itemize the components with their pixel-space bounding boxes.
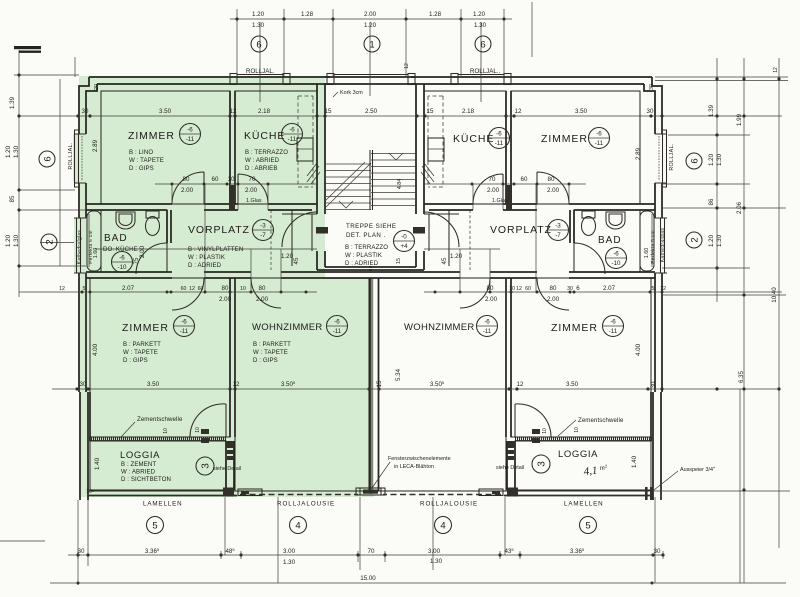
svg-text:1.28: 1.28: [301, 11, 314, 18]
green fill upper-left apartment block: [79, 76, 325, 278]
svg-text:6.35: 6.35: [738, 370, 745, 383]
svg-text:ROLLJAL.: ROLLJAL.: [246, 68, 275, 75]
svg-text:LOGGIA: LOGGIA: [120, 450, 160, 461]
svg-text:70: 70: [368, 548, 375, 555]
svg-text:KÜCHE: KÜCHE: [244, 130, 285, 142]
svg-text:80: 80: [487, 285, 494, 292]
svg-text:1: 1: [369, 40, 374, 51]
svg-text:Perfekta 5 cm: Perfekta 5 cm: [88, 230, 94, 264]
svg-text:-11: -11: [483, 328, 492, 335]
svg-text:2: 2: [690, 237, 701, 242]
svg-text:80: 80: [222, 285, 229, 292]
svg-text:2.06: 2.06: [736, 201, 743, 214]
left chain verticals: [19, 50, 60, 297]
right apartment (mirrored structure): [356, 22, 668, 500]
svg-text:3: 3: [537, 461, 548, 467]
door dim row upper: [155, 183, 586, 185]
svg-text:-11: -11: [595, 140, 604, 147]
svg-text:30: 30: [82, 108, 89, 115]
svg-text:10: 10: [574, 427, 580, 433]
svg-text:-6: -6: [181, 319, 187, 326]
svg-text:4.84: 4.84: [397, 179, 403, 190]
dim row y389: [52, 388, 779, 390]
svg-text:12: 12: [660, 286, 666, 292]
svg-text:1.28: 1.28: [429, 11, 442, 18]
dim texts row y386: [80, 380, 579, 388]
svg-text:WOHNZIMMER: WOHNZIMMER: [252, 322, 323, 333]
svg-text:1.20: 1.20: [252, 11, 265, 18]
green fill lower-left apartment block: [79, 278, 374, 497]
svg-text:30: 30: [649, 84, 655, 90]
svg-text:30: 30: [650, 381, 657, 388]
bottom chain: [68, 554, 663, 556]
svg-text:80: 80: [183, 176, 190, 183]
svg-text:6: 6: [690, 158, 701, 163]
dim texts top chain: [252, 11, 487, 29]
svg-text:1.20: 1.20: [5, 234, 12, 247]
circled position numbers: [39, 36, 702, 534]
svg-text:15: 15: [396, 258, 402, 264]
svg-text:-11: -11: [333, 328, 342, 335]
vorplatz 1.20 row: [95, 248, 500, 250]
svg-text:ZIMMER: ZIMMER: [541, 133, 588, 145]
svg-text:-6: -6: [334, 319, 340, 326]
svg-text:ROLLJAL..: ROLLJAL..: [470, 68, 501, 75]
party wall: [370, 278, 379, 491]
svg-text:VORPLATZ: VORPLATZ: [188, 224, 250, 236]
svg-text:-6: -6: [496, 131, 502, 138]
svg-text:W : TAPETE: W : TAPETE: [253, 349, 288, 356]
svg-text:1.99: 1.99: [736, 113, 743, 126]
svg-text:5: 5: [83, 286, 86, 292]
right chain rotated texts: [708, 104, 778, 383]
svg-text:W : TAPETE: W : TAPETE: [129, 157, 164, 164]
svg-text:2.00: 2.00: [364, 11, 377, 18]
svg-text:80: 80: [548, 176, 555, 183]
svg-text:1.39: 1.39: [9, 96, 16, 109]
left ties: [14, 75, 86, 266]
svg-text:Zementschwelle: Zementschwelle: [137, 416, 183, 423]
svg-text:-6: -6: [289, 127, 295, 134]
svg-text:ZIMMER: ZIMMER: [128, 130, 175, 142]
svg-text:60: 60: [198, 286, 204, 292]
svg-text:2.00: 2.00: [485, 296, 498, 303]
svg-text:1.Glas: 1.Glas: [492, 198, 508, 204]
top tick verticals: [237, 9, 504, 77]
svg-text:Kork 3cm: Kork 3cm: [340, 90, 363, 96]
svg-text:-11: -11: [186, 136, 195, 143]
stair run diagonal: [325, 162, 371, 208]
top dim chain line: [230, 18, 512, 20]
svg-text:2.00: 2.00: [256, 296, 269, 303]
dim texts row y290: [59, 285, 666, 303]
svg-text:10: 10: [542, 428, 548, 434]
svg-text:-6: -6: [119, 255, 125, 262]
rotated window labels: [68, 142, 675, 264]
stair top window: [325, 77, 416, 84]
svg-text:LAMELLEN: LAMELLEN: [564, 501, 604, 508]
svg-text:TREPPE SIEHE: TREPPE SIEHE: [346, 223, 396, 230]
stair arrows: [339, 153, 403, 208]
svg-text:2.00: 2.00: [245, 187, 258, 194]
stair treads left flight: [325, 164, 371, 210]
svg-text:4: 4: [440, 521, 445, 532]
value circle ZIMMER TL: [180, 124, 201, 145]
svg-text:1.30: 1.30: [716, 234, 723, 247]
svg-text:-6: -6: [613, 251, 619, 258]
svg-text:20: 20: [94, 84, 100, 90]
svg-text:B : ZEMENT: B : ZEMENT: [121, 461, 156, 468]
svg-text:3.50: 3.50: [159, 108, 172, 115]
right chain verticals: [717, 58, 779, 583]
svg-text:-7: -7: [555, 232, 561, 239]
svg-text:VORPLATZ: VORPLATZ: [490, 224, 552, 236]
svg-text:1.40: 1.40: [631, 455, 638, 468]
svg-text:2.00: 2.00: [219, 296, 232, 303]
svg-text:10: 10: [195, 427, 201, 433]
bottom chain texts: [78, 547, 661, 582]
svg-text:siehe Detail: siehe Detail: [213, 466, 241, 472]
svg-text:4.00: 4.00: [92, 343, 99, 356]
stair center divider: [370, 150, 373, 210]
svg-text:-0: -0: [401, 234, 407, 241]
svg-text:6: 6: [480, 40, 485, 51]
svg-text:-11: -11: [180, 328, 189, 335]
svg-text:3: 3: [201, 463, 212, 469]
svg-text:5: 5: [585, 521, 590, 532]
svg-text:Kathedralglas: Kathedralglas: [77, 230, 83, 265]
svg-text:12: 12: [517, 381, 524, 388]
svg-text:-6: -6: [484, 319, 490, 326]
svg-text:B : PARKETT: B : PARKETT: [123, 341, 161, 348]
svg-text:5.34: 5.34: [395, 368, 402, 381]
svg-text:2.00: 2.00: [547, 187, 560, 194]
svg-text:1.20: 1.20: [473, 11, 486, 18]
left chain rotated texts: [5, 96, 20, 247]
svg-text:ROLLJALOUSIE: ROLLJALOUSIE: [277, 501, 335, 508]
svg-text:4.00: 4.00: [635, 343, 642, 356]
svg-text:-11: -11: [495, 140, 504, 147]
svg-text:10.40: 10.40: [771, 287, 778, 303]
svg-text:WOHNZIMMER: WOHNZIMMER: [404, 322, 475, 333]
top-left copy marks: [14, 46, 41, 49]
svg-text:2.50: 2.50: [365, 108, 378, 115]
svg-text:W : PLASTIK: W : PLASTIK: [345, 252, 382, 259]
svg-text:12: 12: [233, 381, 240, 388]
svg-text:LOGGIA: LOGGIA: [558, 449, 598, 460]
svg-text:D : ADRIED: D : ADRIED: [188, 262, 222, 269]
svg-text:86: 86: [708, 198, 715, 205]
svg-text:60: 60: [181, 286, 187, 292]
left apartment structure: [73, 22, 385, 500]
svg-text:10: 10: [163, 428, 169, 434]
svg-text:75: 75: [133, 257, 140, 264]
svg-text:80: 80: [259, 285, 266, 292]
svg-text:5: 5: [652, 286, 655, 292]
svg-text:70: 70: [249, 176, 256, 183]
svg-text:15: 15: [427, 108, 434, 115]
svg-text:1.20: 1.20: [281, 253, 294, 260]
svg-text:2.00: 2.00: [547, 296, 560, 303]
svg-text:1.30: 1.30: [252, 22, 265, 29]
svg-text:1.20: 1.20: [364, 22, 377, 29]
svg-text:1.30: 1.30: [430, 558, 443, 565]
kork tick: [333, 92, 338, 97]
svg-text:10: 10: [240, 286, 246, 292]
svg-text:15: 15: [325, 108, 332, 115]
svg-text:1.20: 1.20: [5, 145, 12, 158]
svg-text:-7: -7: [260, 232, 266, 239]
door dim texts upper: [181, 176, 560, 194]
svg-text:W : PLASTIK: W : PLASTIK: [188, 254, 225, 261]
svg-text:12: 12: [189, 286, 195, 292]
svg-text:30: 30: [80, 381, 87, 388]
svg-text:2.18: 2.18: [462, 108, 475, 115]
svg-text:D : GIPS: D : GIPS: [129, 165, 154, 172]
svg-text:1.30: 1.30: [13, 234, 20, 247]
svg-text:B : TERRAZZO: B : TERRAZZO: [345, 244, 388, 251]
svg-text:30: 30: [654, 548, 661, 555]
svg-text:Kathedralglas: Kathedralglas: [660, 228, 666, 263]
ausspeier spout: [645, 487, 648, 500]
svg-text:6: 6: [43, 156, 54, 161]
svg-text:W : ABRIED: W : ABRIED: [245, 157, 280, 164]
svg-text:+4: +4: [400, 243, 408, 250]
svg-text:BAD: BAD: [598, 235, 622, 246]
svg-text:4: 4: [295, 521, 300, 532]
svg-text:30: 30: [78, 548, 85, 555]
svg-text:15.00: 15.00: [360, 575, 376, 582]
svg-text:D : ADRIED: D : ADRIED: [345, 260, 379, 267]
svg-text:1.Glas: 1.Glas: [246, 198, 262, 204]
svg-text:80: 80: [550, 285, 557, 292]
svg-text:Ausspeier 3/4": Ausspeier 3/4": [680, 467, 715, 473]
svg-text:-11: -11: [609, 328, 618, 335]
svg-text:siehe Detail: siehe Detail: [496, 465, 524, 471]
svg-text:-10: -10: [612, 260, 622, 267]
svg-text:12: 12: [59, 286, 65, 292]
circled 3 loggia right: [532, 455, 550, 473]
svg-text:5: 5: [152, 521, 157, 532]
svg-text:2.07: 2.07: [603, 285, 616, 292]
bottom chain ticks: [78, 551, 663, 562]
svg-text:in LECA-Blähton: in LECA-Blähton: [394, 464, 434, 470]
svg-text:-6: -6: [596, 131, 602, 138]
svg-text:45: 45: [441, 257, 448, 264]
svg-text:Fensterzwischenelemente: Fensterzwischenelemente: [388, 456, 451, 462]
svg-text:3.50: 3.50: [575, 108, 588, 115]
svg-text:85: 85: [9, 195, 16, 202]
dim texts row y112: [82, 108, 654, 115]
svg-text:2.18: 2.18: [258, 108, 271, 115]
svg-text:12: 12: [516, 286, 522, 292]
svg-text:6: 6: [256, 40, 261, 51]
svg-text:60: 60: [212, 176, 219, 183]
right ties: [650, 77, 790, 491]
svg-text:1.60: 1.60: [644, 248, 650, 259]
svg-text:30: 30: [647, 108, 654, 115]
interior dim row y116: [19, 115, 782, 117]
svg-text:ROLLJAL.: ROLLJAL.: [669, 143, 675, 170]
svg-text:2.00: 2.00: [487, 187, 500, 194]
svg-text:LAMELLEN: LAMELLEN: [143, 501, 183, 508]
svg-text:10: 10: [509, 286, 515, 292]
svg-text:10⁵: 10⁵: [86, 489, 94, 495]
svg-text:1.20: 1.20: [708, 153, 715, 166]
svg-text:70: 70: [489, 176, 496, 183]
svg-text:60: 60: [521, 176, 528, 183]
svg-text:3.50: 3.50: [566, 381, 579, 388]
svg-text:12: 12: [515, 108, 522, 115]
svg-text:3.00: 3.00: [283, 548, 296, 555]
stray construction line top right: [531, 2, 533, 57]
svg-text:1.30: 1.30: [283, 559, 296, 566]
svg-text:-6: -6: [187, 127, 193, 134]
stair treads right flight: [371, 154, 417, 206]
wall side rotated texts: [86, 63, 655, 495]
svg-text:1.30: 1.30: [13, 145, 20, 158]
svg-text:6: 6: [576, 285, 580, 292]
svg-text:60: 60: [525, 286, 531, 292]
svg-text:2.00: 2.00: [139, 245, 146, 258]
svg-text:2.89: 2.89: [635, 147, 642, 160]
svg-text:-11: -11: [288, 136, 297, 143]
bottom-left stray line: [0, 540, 45, 542]
svg-text:3.50: 3.50: [147, 381, 160, 388]
center lower wall band: [317, 272, 424, 278]
svg-text:15: 15: [376, 380, 383, 387]
svg-text:30: 30: [567, 286, 573, 292]
svg-text:-3: -3: [260, 223, 266, 230]
svg-text:D : GIPS: D : GIPS: [253, 357, 278, 364]
svg-text:1.20: 1.20: [450, 253, 463, 260]
svg-text:-6: -6: [610, 319, 616, 326]
svg-text:3.00: 3.00: [428, 548, 441, 555]
svg-text:1.30: 1.30: [474, 22, 487, 29]
svg-text:-3: -3: [555, 223, 561, 230]
bottom construction verticals: [78, 497, 655, 585]
svg-text:ROLLJALOUSIE: ROLLJALOUSIE: [420, 501, 478, 508]
circled 3 loggia left: [196, 457, 214, 475]
top-left vertical stub: [74, 57, 76, 77]
svg-text:2.07: 2.07: [122, 285, 135, 292]
svg-text:1.30: 1.30: [716, 153, 723, 166]
svg-text:Perfekta 5 cm: Perfekta 5 cm: [650, 230, 656, 264]
svg-text:-10: -10: [118, 264, 128, 271]
svg-text:2.00: 2.00: [181, 187, 194, 194]
svg-text:2.89: 2.89: [92, 139, 99, 152]
svg-text:W : ABRIED: W : ABRIED: [121, 469, 156, 476]
svg-text:12: 12: [773, 67, 779, 73]
svg-text:D : ABRIEB: D : ABRIEB: [245, 165, 278, 172]
svg-text:1.39: 1.39: [708, 104, 715, 117]
svg-text:B : LINO: B : LINO: [129, 149, 153, 156]
svg-text:45: 45: [293, 257, 300, 264]
svg-text:B : PARKETT: B : PARKETT: [253, 341, 291, 348]
svg-text:BAD: BAD: [104, 233, 128, 244]
svg-text:2: 2: [45, 239, 56, 244]
svg-text:D : SICHTBETON: D : SICHTBETON: [121, 476, 171, 483]
svg-text:D : GIPS: D : GIPS: [123, 357, 148, 364]
svg-text:4,1: 4,1: [583, 465, 598, 478]
svg-text:Zementschwelle: Zementschwelle: [578, 417, 624, 424]
svg-text:ROLLJAL.: ROLLJAL.: [68, 142, 74, 169]
svg-text:W : TAPETE: W : TAPETE: [123, 349, 158, 356]
svg-text:10: 10: [228, 176, 235, 183]
svg-text:12: 12: [404, 63, 410, 69]
svg-text:1.40: 1.40: [94, 457, 101, 470]
svg-text:ZIMMER: ZIMMER: [122, 322, 169, 334]
svg-text:DET. PLAN .: DET. PLAN .: [346, 232, 386, 239]
svg-text:B : TERRAZZO: B : TERRAZZO: [245, 149, 288, 156]
svg-text:ZIMMER: ZIMMER: [551, 322, 598, 334]
svg-text:B : VINYLPLATTEN: B : VINYLPLATTEN: [188, 246, 243, 253]
svg-text:1.20: 1.20: [708, 234, 715, 247]
svg-text:12: 12: [230, 108, 237, 115]
dim row y292: [19, 291, 782, 293]
